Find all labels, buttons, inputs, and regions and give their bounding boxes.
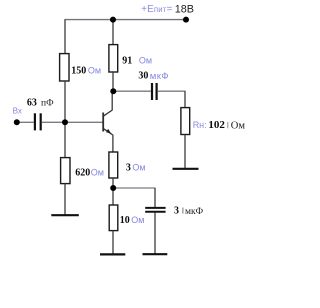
wire: R3 bottom to collector node [112,72,114,91]
ground: under Rн [173,168,199,170]
svg-text:мкФ: мкФ [150,71,169,82]
node: supply rail junction dot [110,17,116,23]
svg-text:91: 91 [122,56,132,67]
wire: emitter lead down to R4 [112,135,114,153]
value label 30 мкФ [138,71,169,82]
svg-text:18В: 18В [175,3,194,15]
wire: collector lead up to node [111,91,113,110]
wire: left branch vertical from rail to R1 [64,20,66,54]
svg-text:Ом: Ом [91,168,104,178]
wire: collector node to C3 [113,90,151,92]
svg-text:3: 3 [126,162,131,173]
ground: under R2 [51,214,79,216]
wire: R5 bottom to ground [112,231,114,255]
resistor R4 3 Ом [109,152,118,178]
resistor R5 10 Ом [109,205,118,231]
value label 150 Ом [71,65,101,76]
ground: under R5 [100,253,125,255]
resistor Rн 102 Ом [181,108,190,135]
svg-text:Ом: Ом [131,215,144,225]
svg-text:102: 102 [208,119,225,131]
svg-text:30: 30 [138,71,148,82]
power label +Епит=18В [141,3,194,15]
wire: R1 bottom to input junction to R2 [64,81,66,158]
svg-text:Ом: Ом [231,120,246,131]
svg-text:620: 620 [75,168,90,179]
wire: C3 to Rн corner [158,90,186,92]
value label 620 Ом [75,168,104,179]
wire: emitter junction to C2 [113,187,155,189]
value label Rн: 102 Ом [193,119,246,131]
wire: C1 to base (through input junction) [42,121,103,123]
wire: rail to R3 top [112,20,114,45]
svg-text:63: 63 [27,97,37,108]
value label 3 мкФ [174,205,204,216]
wire: R2 bottom to ground [64,184,66,215]
resistor R3 91 Ом [109,45,118,72]
capacitor C2 3 мкФ [145,208,165,212]
svg-text:10: 10 [120,215,130,226]
ground: under C2 [143,253,168,255]
node: input junction dot [62,119,68,125]
svg-text:Ом: Ом [88,65,101,75]
value label 3 Ом [126,162,146,173]
svg-text:Rн:: Rн: [193,120,207,130]
resistor R2 620 Ом [61,158,70,184]
svg-text:3: 3 [174,205,179,216]
svg-text:150: 150 [71,65,86,76]
svg-text:Ом: Ом [132,162,145,172]
capacitor C1 63 пФ [35,113,41,130]
value label 63 пФ [27,97,54,108]
resistor R1 150 Ом [60,54,69,81]
node: collector node dot [110,88,116,94]
wire: corner down to Rн top [184,91,186,108]
value label 10 Ом [120,215,145,226]
svg-text:Вх: Вх [13,106,22,115]
capacitor C3 30 мкФ [152,83,157,100]
svg-text:мкФ: мкФ [185,207,204,217]
power terminal +Епит dot [183,17,189,23]
svg-text:Ом: Ом [139,56,152,66]
node: emitter junction dot [110,185,116,191]
wire: down to C2 top plate [154,188,156,207]
wire: top supply rail [64,19,186,21]
svg-text:пФ: пФ [41,98,54,108]
svg-text:+Епит=: +Епит= [141,4,172,15]
wire: input terminal to C1 [17,121,34,123]
wire: C2 bottom to ground [154,213,156,255]
wire: R4 bottom to emitter junction to R5 [112,178,114,205]
input terminal Вх dot [14,119,20,125]
wire: Rн bottom to ground [184,135,186,169]
value label 91 Ом [122,56,152,67]
transistor Q1 [103,110,112,135]
